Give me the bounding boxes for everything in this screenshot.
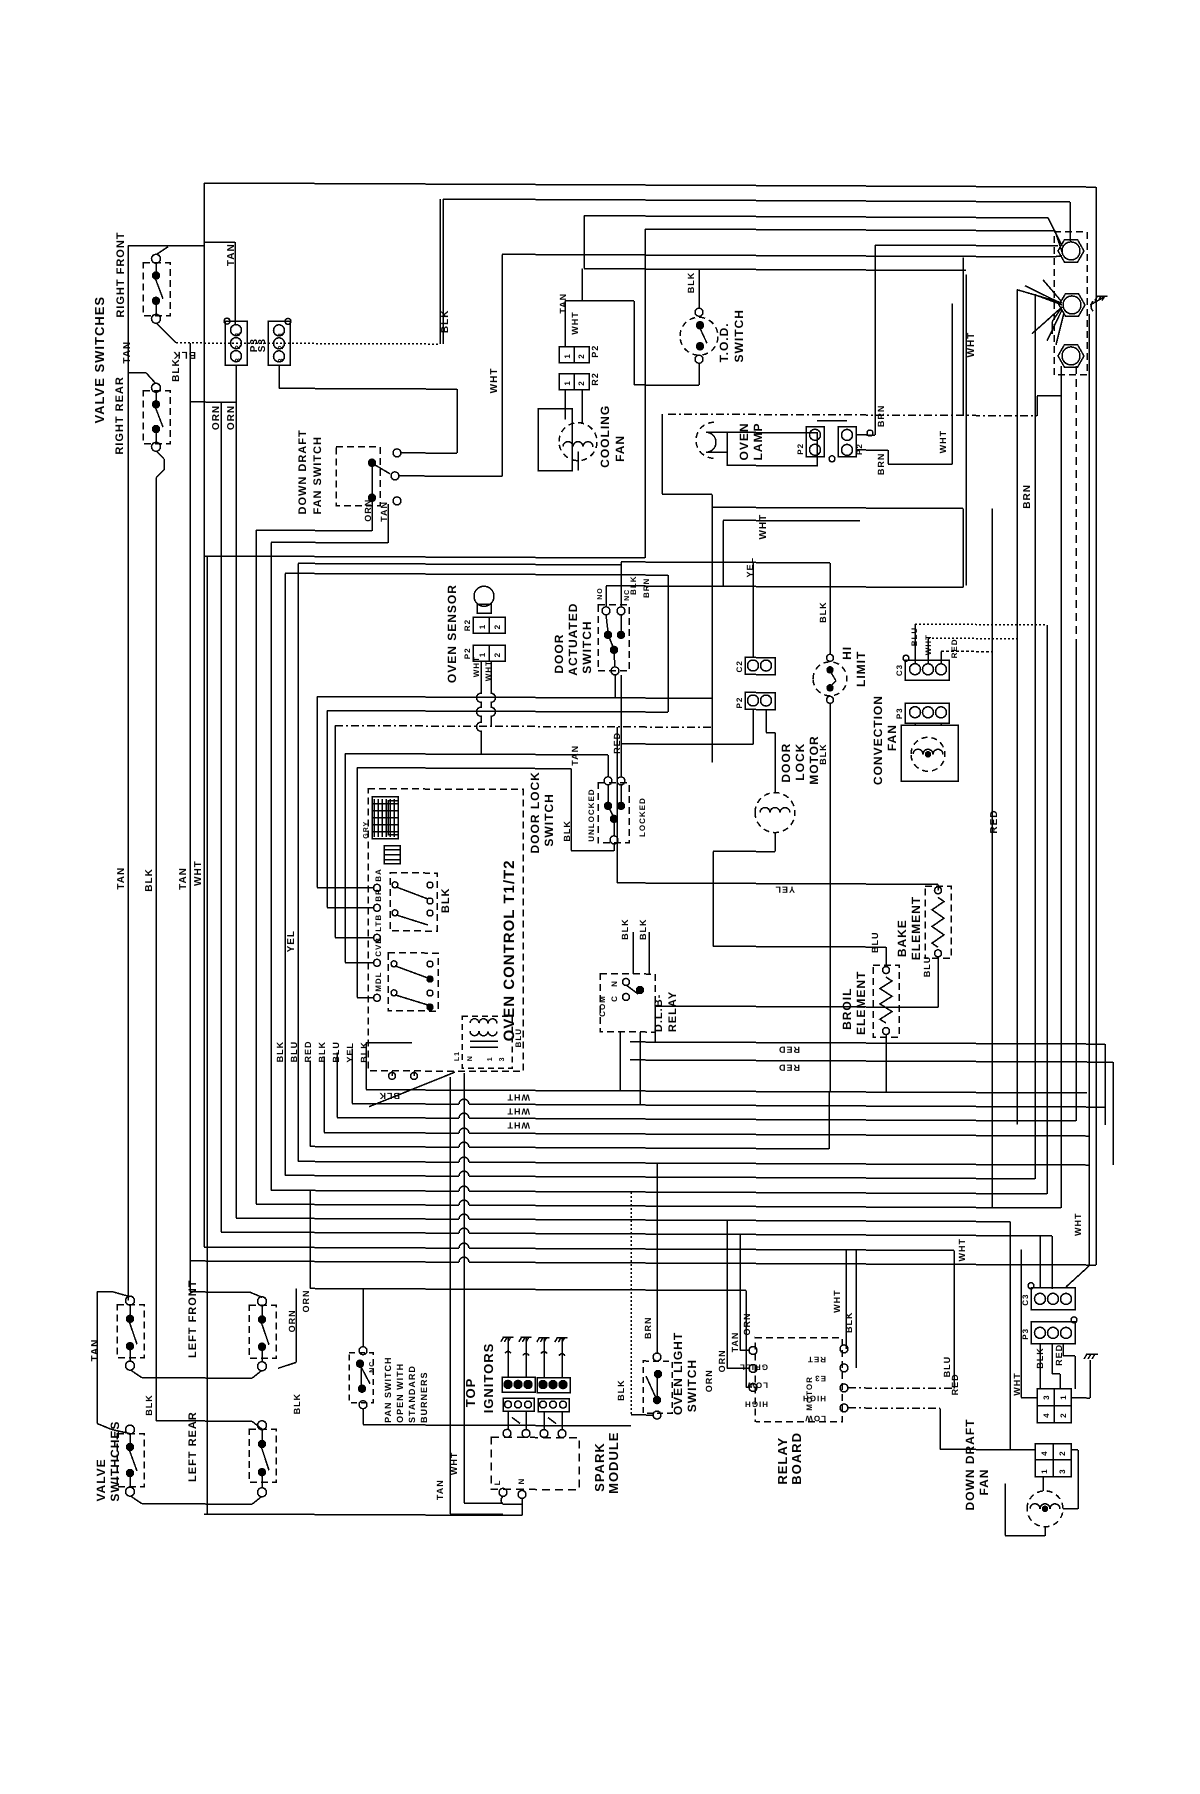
svg-text:2: 2 [235, 344, 242, 349]
svg-text:1: 1 [1059, 1394, 1068, 1399]
svg-text:SWITHCHES: SWITHCHES [108, 1421, 122, 1502]
svg-text:P2: P2 [590, 345, 600, 358]
svg-text:UNLOCKED: UNLOCKED [587, 788, 596, 841]
svg-text:RED: RED [778, 1063, 800, 1073]
svg-text:TAN: TAN [730, 1332, 740, 1353]
svg-text:WHT: WHT [484, 660, 493, 681]
svg-text:4: 4 [1042, 1412, 1051, 1417]
svg-text:LEFT REAR: LEFT REAR [187, 1411, 199, 1482]
svg-text:BLK: BLK [171, 358, 182, 382]
svg-text:WHT: WHT [472, 656, 481, 677]
svg-text:BLK: BLK [1035, 1347, 1045, 1369]
svg-text:ORN: ORN [704, 1369, 714, 1392]
svg-text:SWITCH: SWITCH [732, 309, 746, 362]
svg-text:2: 2 [493, 624, 502, 629]
svg-text:T.O.D.: T.O.D. [717, 322, 731, 362]
svg-text:OVEN LIGHT: OVEN LIGHT [671, 1332, 685, 1415]
svg-text:1: 1 [235, 331, 242, 336]
svg-text:LEFT FRONT: LEFT FRONT [187, 1279, 199, 1357]
svg-text:RED: RED [989, 809, 1000, 833]
svg-text:BLK: BLK [172, 349, 196, 360]
svg-text:BLK: BLK [686, 272, 696, 294]
svg-text:MDL: MDL [374, 971, 383, 991]
svg-text:1: 1 [563, 380, 572, 385]
svg-text:ORN: ORN [363, 499, 373, 522]
svg-text:P2: P2 [855, 443, 864, 455]
svg-text:NO: NO [597, 587, 604, 600]
svg-text:BLK: BLK [620, 918, 630, 940]
svg-text:WHT: WHT [507, 1106, 530, 1116]
svg-text:DOWN DRAFT: DOWN DRAFT [297, 429, 309, 514]
svg-text:CVB: CVB [374, 937, 383, 957]
svg-text:BLK: BLK [379, 1091, 400, 1101]
svg-text:1: 1 [478, 624, 487, 629]
svg-text:BLU: BLU [922, 956, 932, 978]
svg-text:2: 2 [493, 652, 502, 657]
svg-text:ORN: ORN [717, 1349, 727, 1372]
svg-text:2: 2 [1059, 1412, 1068, 1417]
svg-text:VALVE: VALVE [94, 1458, 108, 1501]
svg-text:BLK: BLK [616, 1379, 626, 1401]
svg-text:BRN: BRN [643, 1316, 653, 1339]
svg-text:ORN: ORN [287, 1309, 297, 1332]
svg-text:3: 3 [499, 1056, 506, 1061]
svg-text:TAN: TAN [379, 501, 389, 522]
svg-text:D.L.B-: D.L.B- [653, 994, 665, 1032]
svg-text:LAMP: LAMP [751, 422, 765, 460]
svg-text:RED: RED [950, 638, 959, 658]
svg-text:WHT: WHT [193, 860, 204, 886]
svg-text:TOP: TOP [463, 1378, 478, 1408]
svg-text:L: L [493, 1479, 502, 1485]
svg-text:BLK: BLK [275, 1041, 285, 1063]
svg-text:BLK: BLK [292, 1393, 302, 1415]
svg-text:OVEN: OVEN [737, 422, 751, 460]
svg-text:BRN: BRN [876, 453, 886, 476]
svg-text:TAN: TAN [435, 1479, 445, 1500]
svg-text:HI: HI [840, 646, 854, 660]
svg-text:DOWN DRAFT: DOWN DRAFT [963, 1418, 977, 1510]
svg-text:LOW: LOW [804, 1414, 826, 1423]
svg-text:BLU: BLU [514, 1028, 523, 1047]
svg-text:BOARD: BOARD [789, 1432, 804, 1485]
svg-text:BR: BR [374, 888, 383, 902]
svg-text:LOW: LOW [746, 1380, 768, 1389]
svg-text:WHT: WHT [1073, 1212, 1083, 1236]
svg-text:2: 2 [577, 353, 586, 358]
svg-text:HIGH: HIGH [744, 1399, 768, 1408]
svg-text:WHT: WHT [489, 368, 500, 394]
svg-text:BLK: BLK [638, 918, 648, 940]
svg-text:RELAY: RELAY [775, 1437, 790, 1485]
svg-text:WHT: WHT [1012, 1372, 1022, 1396]
svg-text:VALVE SWITCHES: VALVE SWITCHES [92, 296, 107, 424]
svg-text:RED: RED [612, 732, 622, 754]
svg-text:YEL: YEL [345, 1042, 355, 1063]
svg-text:GRILL: GRILL [739, 1362, 768, 1371]
svg-text:WHT: WHT [758, 514, 769, 540]
svg-text:P2: P2 [463, 647, 472, 659]
svg-text:L1: L1 [454, 1051, 461, 1061]
svg-text:ORN: ORN [742, 1312, 752, 1335]
svg-text:CONVECTION: CONVECTION [871, 695, 885, 785]
svg-text:2: 2 [577, 380, 586, 385]
svg-text:P3: P3 [895, 707, 904, 719]
svg-text:RED: RED [303, 1040, 313, 1062]
svg-text:DOOR LOCK: DOOR LOCK [528, 771, 542, 853]
svg-text:WHT: WHT [570, 311, 580, 335]
svg-text:COM: COM [598, 995, 607, 1017]
svg-text:WHT: WHT [832, 1289, 842, 1313]
svg-text:BLU: BLU [942, 1356, 952, 1378]
svg-text:4: 4 [1040, 1450, 1049, 1455]
svg-text:BLK: BLK [562, 820, 572, 842]
svg-text:OVEN CONTROL T1/T2: OVEN CONTROL T1/T2 [501, 859, 518, 1041]
svg-text:C3: C3 [1021, 1293, 1030, 1305]
svg-text:P2: P2 [735, 697, 744, 709]
svg-text:BLK: BLK [359, 1041, 369, 1063]
svg-text:BLK: BLK [629, 575, 638, 594]
svg-text:BRN: BRN [642, 578, 651, 598]
svg-text:3: 3 [235, 357, 242, 362]
svg-text:COOLING: COOLING [598, 405, 612, 468]
svg-text:C2: C2 [735, 660, 744, 672]
svg-text:BRN: BRN [876, 405, 886, 428]
svg-text:FAN: FAN [885, 724, 899, 751]
svg-text:ORN: ORN [211, 405, 222, 430]
svg-text:1: 1 [487, 1056, 494, 1061]
svg-text:WHT: WHT [449, 1452, 459, 1476]
svg-text:TAN: TAN [558, 293, 568, 314]
svg-text:DOOR: DOOR [779, 743, 793, 783]
svg-text:TAN: TAN [122, 341, 133, 364]
svg-text:BLK: BLK [844, 1311, 854, 1333]
svg-text:FAN: FAN [613, 435, 627, 462]
svg-text:WHT: WHT [966, 332, 977, 358]
svg-text:TAN: TAN [178, 867, 189, 890]
svg-text:BLU: BLU [910, 627, 919, 646]
svg-text:3: 3 [1042, 1394, 1051, 1399]
svg-text:SPARK: SPARK [592, 1442, 607, 1492]
svg-text:WHT: WHT [938, 430, 948, 454]
svg-text:MOTOR: MOTOR [805, 1376, 814, 1411]
svg-text:N: N [610, 980, 619, 987]
svg-text:BLK: BLK [818, 601, 828, 623]
svg-text:BLK: BLK [440, 887, 452, 913]
svg-text:BLU: BLU [331, 1041, 341, 1063]
svg-text:LIMIT: LIMIT [854, 651, 868, 687]
svg-text:YEL: YEL [745, 557, 755, 578]
svg-text:FAN SWITCH: FAN SWITCH [312, 436, 324, 515]
svg-text:LTB: LTB [374, 914, 383, 932]
svg-text:LOCK: LOCK [793, 743, 807, 781]
svg-text:C3: C3 [895, 664, 904, 676]
svg-text:ORN: ORN [301, 1289, 311, 1312]
svg-text:RET: RET [807, 1355, 826, 1364]
svg-text:MODULE: MODULE [606, 1431, 621, 1493]
svg-text:P3: P3 [1021, 1328, 1030, 1340]
svg-text:PAN SWITCH: PAN SWITCH [383, 1356, 393, 1422]
svg-text:OVEN SENSOR: OVEN SENSOR [445, 584, 459, 683]
svg-text:BURNERS: BURNERS [419, 1371, 429, 1423]
svg-text:DOOR: DOOR [552, 634, 566, 674]
svg-text:RED: RED [778, 1045, 800, 1055]
svg-text:RELAY: RELAY [667, 991, 679, 1032]
svg-text:1: 1 [563, 353, 572, 358]
svg-text:WHT: WHT [957, 1238, 967, 1262]
svg-text:STANDARD: STANDARD [407, 1365, 417, 1423]
svg-text:WHT: WHT [507, 1120, 530, 1130]
svg-text:E3: E3 [814, 1374, 826, 1383]
svg-text:ORN: ORN [226, 405, 237, 430]
svg-text:N: N [517, 1478, 526, 1485]
svg-text:3: 3 [278, 357, 285, 362]
svg-text:RED: RED [1054, 1344, 1064, 1366]
svg-text:TAN: TAN [116, 867, 127, 890]
svg-text:S3: S3 [257, 338, 268, 352]
svg-text:ELEMENT: ELEMENT [854, 971, 868, 1035]
svg-text:TAN: TAN [226, 243, 237, 266]
svg-text:FAN: FAN [977, 1469, 991, 1496]
svg-text:BLU: BLU [289, 1041, 299, 1063]
svg-text:GRY: GRY [363, 821, 370, 839]
svg-text:BLK: BLK [144, 1394, 154, 1416]
svg-text:ELEMENT: ELEMENT [909, 896, 923, 960]
svg-text:N: N [467, 1055, 474, 1061]
svg-text:NC: NC [369, 1361, 376, 1373]
svg-text:WHT: WHT [507, 1092, 530, 1102]
svg-text:R2: R2 [463, 619, 472, 631]
svg-text:C: C [610, 995, 619, 1002]
svg-text:BRN: BRN [1022, 484, 1033, 509]
svg-text:RIGHT FRONT: RIGHT FRONT [115, 231, 127, 317]
svg-text:ACTUATED: ACTUATED [566, 603, 580, 676]
svg-text:YEL: YEL [774, 885, 795, 895]
svg-text:BLK: BLK [317, 1041, 327, 1063]
svg-text:RIGHT REAR: RIGHT REAR [114, 376, 126, 455]
svg-text:YEL: YEL [286, 930, 297, 953]
svg-text:BLK: BLK [144, 868, 155, 892]
svg-text:3: 3 [1058, 1468, 1067, 1473]
svg-text:1: 1 [278, 331, 285, 336]
svg-text:SWITCH: SWITCH [685, 1359, 699, 1412]
svg-text:BROIL: BROIL [840, 988, 854, 1030]
svg-text:2: 2 [1058, 1450, 1067, 1455]
svg-text:SWITCH: SWITCH [542, 793, 556, 846]
svg-text:BAKE: BAKE [895, 919, 909, 957]
svg-text:OPEN WITH: OPEN WITH [395, 1363, 405, 1423]
svg-text:MOTOR: MOTOR [807, 735, 821, 785]
svg-text:TAN: TAN [90, 1339, 101, 1362]
svg-text:WHT: WHT [924, 634, 933, 655]
svg-text:SWITCH: SWITCH [580, 620, 594, 673]
svg-text:R2: R2 [590, 372, 600, 386]
svg-text:IGNITORS: IGNITORS [481, 1343, 496, 1414]
svg-text:BLU: BLU [870, 932, 880, 954]
svg-text:TAN: TAN [570, 745, 580, 766]
svg-text:2: 2 [278, 344, 285, 349]
svg-text:BA: BA [374, 868, 383, 882]
svg-text:1: 1 [1040, 1468, 1049, 1473]
svg-text:P2: P2 [796, 443, 805, 455]
svg-text:BLK: BLK [440, 310, 451, 334]
svg-text:LOCKED: LOCKED [638, 797, 647, 837]
